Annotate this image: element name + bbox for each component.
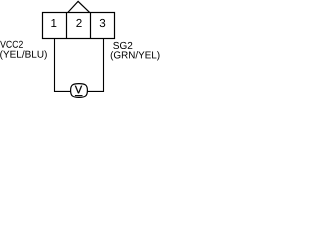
wire color (YEL/BLU)	[0, 50, 47, 59]
voltmeter symbol underline	[75, 95, 83, 97]
voltmeter letter V	[75, 86, 82, 94]
wire from pin 1 to voltmeter	[55, 39, 72, 92]
connector pin divider 2-3	[90, 13, 92, 39]
pin 2 label	[76, 19, 81, 27]
connector J1 body	[43, 13, 115, 39]
net label VCC2	[0, 41, 23, 48]
wire from pin 3 to voltmeter	[87, 39, 104, 92]
voltmeter V1 body	[71, 84, 88, 98]
net label SG2	[113, 42, 132, 49]
pin 3 label	[100, 19, 106, 27]
connector keying tab	[68, 1, 90, 12]
connector pin divider 1-2	[66, 13, 68, 39]
pin 1 label	[51, 19, 56, 27]
wire color (GRN/YEL)	[111, 51, 160, 60]
